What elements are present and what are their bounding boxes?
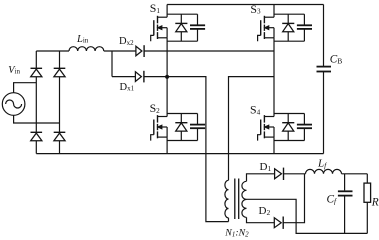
wire S3 source to S4 drain (leg2 mid) bbox=[273, 38, 275, 117]
capacitor Cf bbox=[338, 174, 353, 234]
snubber capacitor S4 bbox=[297, 114, 312, 141]
wire AC top lead to bridge leg 1 bbox=[14, 83, 37, 93]
svg-text:S1: S1 bbox=[150, 1, 161, 15]
resistor R bbox=[364, 174, 371, 234]
body diode S4 bbox=[282, 114, 294, 141]
svg-text:Lf: Lf bbox=[317, 158, 327, 170]
snubber box S1 bbox=[167, 14, 197, 41]
wire Dx2 cathode to S3-S4 leg bbox=[144, 50, 274, 52]
inductor Lin bbox=[69, 47, 104, 51]
wire S1 source to junction (leg1 mid) bbox=[166, 38, 168, 77]
svg-text:Lin: Lin bbox=[76, 34, 89, 45]
transistor S1 MOSFET bbox=[151, 16, 167, 42]
svg-text:Dx2: Dx2 bbox=[119, 36, 134, 47]
wire S3 drain lead bbox=[273, 5, 275, 18]
wire bottom rail bbox=[36, 153, 323, 155]
wire S3-S4 midpoint to transformer primary top bbox=[229, 77, 275, 181]
AC source Vin bbox=[2, 93, 25, 116]
diode Dx1 bbox=[135, 71, 144, 83]
wire top rail bbox=[167, 4, 323, 6]
bridge diode bottom leg1 bbox=[31, 132, 43, 153]
wire S2 source to bottom rail bbox=[166, 137, 168, 154]
transformer secondary winding N2 bbox=[242, 181, 247, 217]
body diode S2 bbox=[175, 114, 187, 141]
transformer core bbox=[235, 179, 239, 220]
transformer primary winding N1 bbox=[225, 180, 229, 218]
wire bridge top rail to inductor bbox=[36, 50, 69, 52]
wire S4 source to bottom rail bbox=[273, 137, 275, 154]
wire branch vertical to Dx1 row bbox=[111, 51, 113, 77]
transistor S4 MOSFET bbox=[258, 115, 274, 141]
wire right rail lower bbox=[323, 72, 325, 154]
svg-text:D1: D1 bbox=[260, 161, 272, 173]
wire junction to transformer primary bottom bbox=[167, 77, 228, 222]
inductor Lf bbox=[306, 169, 342, 173]
wire center tap to output return bbox=[247, 199, 368, 233]
snubber capacitor S2 bbox=[190, 114, 205, 141]
wire right rail upper bbox=[323, 5, 325, 67]
snubber box S4 bbox=[274, 114, 304, 141]
bridge diode top leg2 bbox=[54, 51, 66, 132]
wire branch to Dx1 bbox=[112, 76, 135, 78]
wire Lf to load bbox=[342, 173, 368, 175]
svg-text:N1:N2: N1:N2 bbox=[224, 227, 249, 238]
wire D2 cathode up to Lf node bbox=[283, 174, 304, 223]
wire Dx1 cathode to junction bbox=[144, 76, 167, 78]
wire junction to S2 drain bbox=[166, 77, 168, 117]
bridge diode top leg1 bbox=[31, 51, 43, 132]
diode D2 bbox=[274, 217, 283, 229]
svg-text:S4: S4 bbox=[250, 103, 261, 117]
svg-text:Cf: Cf bbox=[327, 193, 338, 205]
svg-text:Vin: Vin bbox=[8, 65, 20, 76]
wire S1 drain lead bbox=[166, 5, 168, 18]
svg-text:R: R bbox=[371, 196, 379, 208]
snubber capacitor S3 bbox=[297, 14, 312, 41]
transistor S2 MOSFET bbox=[151, 115, 167, 141]
bridge diode bottom leg2 bbox=[54, 132, 66, 153]
wire Lin to Dx2 bbox=[104, 50, 136, 52]
body diode S3 bbox=[282, 14, 294, 41]
svg-text:S2: S2 bbox=[150, 101, 161, 115]
capacitor CB bbox=[317, 67, 332, 72]
wire AC bottom lead to bridge leg 2 bbox=[14, 115, 60, 123]
snubber box S3 bbox=[274, 14, 304, 41]
transistor S3 MOSFET bbox=[258, 16, 274, 42]
node junction dot bbox=[165, 75, 169, 79]
diode Dx2 bbox=[136, 45, 144, 57]
diode D1 bbox=[275, 168, 284, 180]
body diode S1 bbox=[175, 14, 187, 41]
snubber capacitor S1 bbox=[190, 14, 205, 41]
wire D1 cathode to Lf node bbox=[284, 173, 306, 175]
svg-text:CB: CB bbox=[330, 54, 342, 66]
wire primary bottom stub bbox=[228, 218, 230, 222]
svg-text:D2: D2 bbox=[259, 205, 271, 217]
svg-text:Dx1: Dx1 bbox=[120, 82, 135, 93]
wire secondary bottom to D2 bbox=[247, 217, 275, 222]
wire secondary top to D1 bbox=[247, 174, 275, 182]
snubber box S2 bbox=[167, 114, 197, 141]
